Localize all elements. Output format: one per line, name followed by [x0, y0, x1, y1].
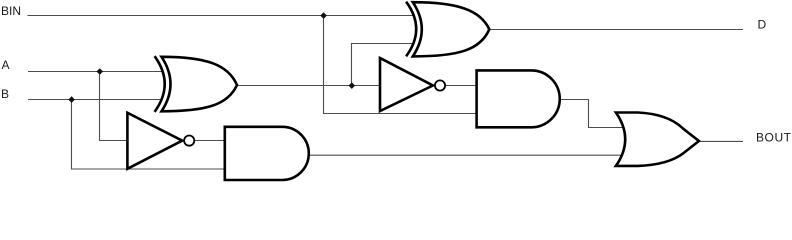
node junction on XOR1 output	[349, 82, 356, 89]
wire BIN input	[28, 15, 414, 17]
svg-text:D: D	[758, 18, 767, 32]
wire A input	[28, 71, 162, 73]
svg-text:A: A	[2, 58, 10, 72]
svg-text:B: B	[1, 87, 9, 101]
wire branch XOR1 output to XOR2 lower input	[352, 44, 414, 86]
xor-gate XOR1 input-arc	[155, 56, 165, 112]
and-gate AND2	[477, 70, 560, 127]
wire AND1 output to OR lower input	[309, 154, 623, 156]
wire XOR1 output to NOT2 input	[237, 85, 381, 87]
and-gate AND1	[225, 127, 309, 180]
xor-gate XOR2 input-arc	[406, 2, 416, 57]
node junction on BIN line	[320, 12, 327, 19]
svg-text:BIN: BIN	[1, 4, 21, 18]
not-gate NOT1 bubble	[184, 136, 194, 146]
or-gate OR1	[616, 113, 699, 166]
wire A branch to NOT1 input	[100, 72, 131, 141]
not-gate NOT2 bubble	[435, 80, 445, 90]
xor-gate XOR2 body	[413, 2, 490, 56]
not-gate NOT2 triangle	[380, 58, 433, 111]
wire AND2 output to OR upper input	[560, 100, 623, 128]
node junction on B line	[68, 96, 75, 103]
not-gate NOT1 triangle	[127, 113, 182, 169]
wire B input	[28, 99, 162, 101]
svg-text:BOUT: BOUT	[756, 131, 792, 145]
wire BOUT output	[698, 140, 743, 142]
wire B branch to AND1 lower input	[72, 100, 226, 170]
wire D output	[490, 29, 744, 31]
wire BIN branch to AND2 lower input	[324, 16, 478, 114]
wire NOT2 output to AND2 upper input	[446, 85, 477, 87]
wire NOT1 output to AND1 upper input	[195, 140, 226, 142]
node junction on A line	[97, 68, 104, 75]
xor-gate XOR1 body	[162, 57, 238, 112]
